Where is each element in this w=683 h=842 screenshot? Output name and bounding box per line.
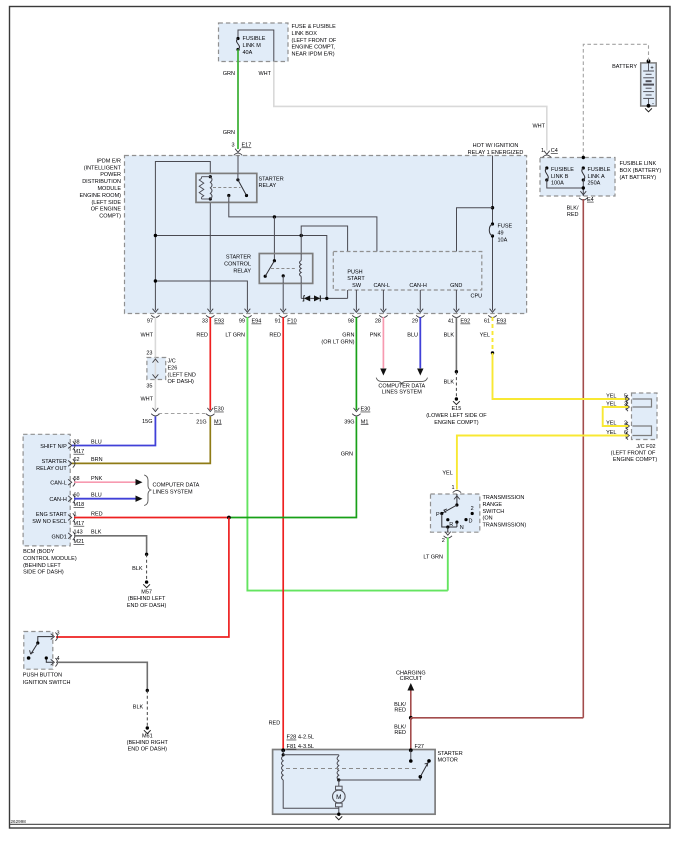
svg-text:STARTER: STARTER: [226, 255, 251, 261]
wire GRN connector 39G to junction with BCM eng start sw: [229, 417, 357, 518]
wire fuse branch to CPU: [457, 208, 493, 252]
wire CPU CAN-H to pin 29: [419, 290, 421, 311]
wire joining fusible links A and B: [547, 180, 584, 188]
svg-text:CPU: CPU: [471, 293, 483, 299]
svg-text:ENGINE COMPT): ENGINE COMPT): [613, 457, 657, 463]
wire starter control relay coil bottom to diodes: [300, 283, 302, 298]
svg-text:C4: C4: [551, 148, 558, 154]
wire BLK/RED junction to battery feed: [411, 717, 584, 719]
svg-text:OF DASH): OF DASH): [168, 379, 194, 385]
svg-text:(LEFT END: (LEFT END: [168, 372, 196, 378]
svg-text:E94: E94: [252, 319, 262, 325]
svg-text:33: 33: [202, 319, 208, 325]
node bus to pin 99: [154, 279, 157, 282]
wire CPU CAN-L to pin 28: [382, 290, 384, 311]
svg-text:GND1: GND1: [52, 534, 67, 540]
wire GRN pin 98 to connector 39G: [355, 317, 357, 410]
node bus coil tap: [300, 234, 303, 237]
pin 38 M17: [68, 443, 72, 449]
svg-text:RELAY OUT: RELAY OUT: [36, 466, 67, 472]
pin 1 M17: [68, 515, 72, 521]
svg-text:SW NO ESCL: SW NO ESCL: [32, 519, 67, 525]
svg-text:21G: 21G: [196, 419, 206, 425]
svg-text:YEL: YEL: [480, 333, 490, 339]
computer data lines brace: [376, 378, 427, 385]
junction connector J/C E26: [147, 358, 166, 380]
starter control relay coil: [300, 261, 302, 277]
svg-text:BLK: BLK: [91, 530, 102, 536]
svg-text:HOT W/ IGNITION: HOT W/ IGNITION: [473, 143, 519, 149]
node fuse branch: [491, 206, 494, 209]
svg-text:LINK B: LINK B: [551, 174, 569, 180]
svg-text:TRANSMISSION: TRANSMISSION: [483, 495, 525, 501]
svg-text:1: 1: [74, 511, 77, 517]
svg-text:40A: 40A: [243, 50, 253, 56]
svg-text:COMPUTER DATA: COMPUTER DATA: [378, 383, 425, 389]
motor M1: [338, 780, 340, 786]
svg-text:M17: M17: [74, 449, 85, 455]
svg-text:E93: E93: [214, 319, 224, 325]
wire BLK/RED junction to starter motor F27: [410, 718, 412, 750]
svg-text:RELAY: RELAY: [259, 183, 277, 189]
svg-text:BLU: BLU: [91, 439, 102, 445]
ground starter motor: [337, 813, 340, 816]
svg-text:BLK: BLK: [444, 333, 455, 339]
wire BLU pin 29 to computer data lines: [419, 317, 421, 368]
svg-text:61: 61: [484, 319, 490, 325]
svg-text:LINK M: LINK M: [243, 43, 262, 49]
wire YEL to J/C F02 pin 5: [493, 353, 629, 399]
IPDM E/R module box: [125, 156, 527, 314]
svg-text:250A: 250A: [588, 181, 601, 187]
pin 1: [453, 490, 461, 492]
svg-text:COMPUTER DATA: COMPUTER DATA: [153, 483, 200, 489]
svg-text:R: R: [449, 522, 453, 528]
svg-text:E93: E93: [497, 319, 507, 325]
transmission range switch internals: [456, 494, 458, 505]
svg-text:(ON: (ON: [483, 516, 493, 522]
svg-text:BLU: BLU: [407, 333, 418, 339]
svg-text:39G: 39G: [344, 419, 354, 425]
svg-text:10A: 10A: [498, 237, 508, 243]
svg-text:STARTER: STARTER: [259, 176, 284, 182]
svg-text:RED: RED: [269, 721, 281, 727]
pin 91 F10: [280, 309, 286, 313]
wire battery positive to fusible link box (dashed): [583, 44, 648, 157]
svg-text:START: START: [347, 276, 365, 282]
wire bus to pin 99: [155, 281, 247, 311]
pin 33 E93: [207, 309, 213, 313]
wire bus to diode branch: [155, 236, 326, 299]
svg-text:BLU: BLU: [91, 493, 102, 499]
pin 5: [626, 396, 630, 402]
charging circuit arrow: [410, 690, 412, 718]
svg-text:M1: M1: [214, 419, 222, 425]
wire F27 terminal to contact: [409, 748, 413, 752]
svg-text:PNK: PNK: [91, 476, 103, 482]
J/C F02 loop pins 2-6: [633, 426, 652, 436]
pin 29: [417, 309, 423, 313]
svg-text:BLK: BLK: [133, 705, 144, 711]
pin 41 E92: [454, 309, 460, 313]
wire YEL pin 3 to pin 2: [603, 407, 629, 426]
pin 4: [51, 659, 55, 665]
svg-text:N: N: [460, 525, 464, 531]
wire starter relay coil to pin 33: [209, 202, 211, 310]
svg-text:RANGE: RANGE: [483, 502, 503, 508]
connector E30/M1 terminal 15G: [153, 408, 159, 412]
svg-text:M18: M18: [74, 502, 85, 508]
svg-text:FUSIBLE: FUSIBLE: [588, 167, 611, 173]
svg-text:STARTER: STARTER: [42, 459, 67, 465]
svg-text:WHT: WHT: [140, 333, 153, 339]
svg-text:PNK: PNK: [370, 333, 382, 339]
svg-text:60: 60: [74, 493, 80, 499]
svg-text:PUSH: PUSH: [347, 269, 362, 275]
wire BLU BCM CAN-H to computer data lines: [74, 498, 136, 500]
svg-text:BATTERY: BATTERY: [612, 64, 637, 70]
svg-text:LT GRN: LT GRN: [423, 554, 443, 560]
wire junction to starter control relay switch: [273, 217, 275, 261]
pin 6: [626, 433, 630, 439]
svg-text:49: 49: [498, 231, 504, 237]
wire PNK BCM CAN-L to computer data lines: [74, 481, 136, 483]
svg-text:FUSIBLE: FUSIBLE: [551, 167, 574, 173]
transmission range switch: [431, 494, 480, 532]
svg-text:J/C F02: J/C F02: [636, 444, 655, 450]
wire RED pin 91 to starter motor: [282, 317, 284, 750]
svg-text:1: 1: [451, 485, 454, 491]
svg-text:LT GRN: LT GRN: [225, 333, 245, 339]
svg-text:(LEFT FRONT OF: (LEFT FRONT OF: [292, 38, 337, 44]
wire starter control relay coil top: [300, 236, 302, 254]
svg-text:RED: RED: [567, 212, 579, 218]
node YEL splice: [491, 351, 494, 354]
svg-text:END OF DASH): END OF DASH): [127, 603, 167, 609]
svg-text:E30: E30: [214, 407, 224, 413]
fusible link M 40A: [236, 37, 239, 40]
svg-text:143: 143: [74, 530, 83, 536]
svg-text:GND: GND: [450, 283, 462, 289]
connector E30/M1 terminal 21G: [207, 408, 213, 412]
svg-text:CONTROL MODULE): CONTROL MODULE): [23, 556, 77, 562]
starter relay U1: [196, 173, 257, 202]
svg-text:RED: RED: [196, 333, 208, 339]
svg-text:COMPT): COMPT): [99, 214, 121, 220]
svg-text:IGNITION SWITCH: IGNITION SWITCH: [23, 680, 71, 686]
svg-text:3: 3: [57, 630, 60, 636]
svg-text:CIRCUIT: CIRCUIT: [400, 676, 423, 682]
svg-text:NEAR IPDM E/R): NEAR IPDM E/R): [292, 52, 335, 58]
svg-text:MODULE: MODULE: [97, 186, 121, 192]
svg-text:D: D: [469, 518, 473, 524]
svg-text:RELAY: RELAY: [233, 268, 251, 274]
wire CPU SW to pin 98: [355, 290, 357, 311]
starter motor solenoid windings: [281, 748, 285, 752]
svg-text:TRANSMISSION): TRANSMISSION): [483, 523, 527, 529]
fusible link box battery: [540, 158, 615, 197]
svg-text:POWER: POWER: [100, 172, 121, 178]
svg-text:F28 4-2.5L: F28 4-2.5L: [287, 735, 315, 741]
pin 60 M18: [68, 496, 72, 502]
svg-text:(LOWER LEFT SIDE OF: (LOWER LEFT SIDE OF: [426, 413, 487, 419]
svg-text:M17: M17: [74, 521, 85, 527]
wire BLK push button to ground M61: [56, 662, 147, 690]
connector E30/M1 dashed link: [159, 413, 207, 415]
wire WHT J/C E26 to connector 15G: [154, 380, 156, 411]
svg-text:100A: 100A: [551, 181, 564, 187]
solenoid contact switch: [419, 775, 423, 779]
svg-text:M1: M1: [361, 419, 369, 425]
wire starter relay coil feed to pin 97: [155, 162, 210, 311]
svg-text:F81 4-3.5L: F81 4-3.5L: [287, 744, 315, 750]
wire RED BCM eng start sw to junction: [74, 517, 229, 519]
svg-text:29: 29: [412, 319, 418, 325]
pin 58: [68, 479, 72, 485]
starter control relay U2: [259, 254, 312, 284]
svg-text:YEL: YEL: [606, 393, 616, 399]
svg-text:98: 98: [348, 319, 354, 325]
svg-text:WHT: WHT: [258, 71, 271, 77]
fuse 49 10A: [492, 156, 494, 225]
pin 97: [153, 309, 159, 313]
ground M57: [145, 580, 148, 583]
wire BLK/RED from E4 down right side: [582, 199, 584, 718]
svg-text:WHT: WHT: [140, 397, 153, 403]
wire pull-in winding to motor low side: [283, 780, 339, 808]
svg-text:J/C: J/C: [168, 359, 176, 365]
svg-text:CAN-H: CAN-H: [49, 497, 66, 503]
svg-text:58: 58: [74, 476, 80, 482]
svg-text:E15: E15: [452, 406, 462, 412]
svg-text:38: 38: [74, 439, 80, 445]
svg-text:CAN-H: CAN-H: [409, 283, 426, 289]
push button ignition switch: [24, 632, 53, 670]
svg-text:SHIFT N/P: SHIFT N/P: [40, 444, 67, 450]
svg-text:ENG START: ENG START: [36, 512, 68, 518]
pin 62: [68, 461, 72, 467]
CPU box: [333, 252, 482, 291]
pin 61 E93: [490, 309, 496, 313]
pin 2: [447, 527, 449, 532]
wire winding junction to solenoid switch: [339, 777, 421, 780]
wire RED junction to push button ignition switch: [56, 518, 229, 638]
BCM body control module box: [23, 434, 70, 546]
svg-text:(BEHIND LEFT: (BEHIND LEFT: [128, 596, 166, 602]
svg-text:(INTELLIGENT: (INTELLIGENT: [84, 165, 122, 171]
svg-text:M61: M61: [142, 734, 153, 740]
connector E30/M1 terminal 39G: [354, 408, 360, 412]
svg-text:LINK A: LINK A: [588, 174, 605, 180]
svg-text:23: 23: [146, 351, 152, 357]
svg-text:CONTROL: CONTROL: [224, 261, 251, 267]
svg-text:41: 41: [448, 319, 454, 325]
svg-text:RELAY 1 ENERGIZED: RELAY 1 ENERGIZED: [468, 150, 524, 156]
svg-text:E30: E30: [361, 407, 371, 413]
svg-text:LINES SYSTEM: LINES SYSTEM: [153, 489, 193, 495]
svg-text:M57: M57: [141, 589, 152, 595]
svg-text:RED: RED: [394, 730, 406, 736]
svg-text:GRN: GRN: [342, 333, 354, 339]
starter control relay switch contacts: [273, 259, 276, 262]
svg-text:RED: RED: [269, 333, 281, 339]
svg-text:OF ENGINE: OF ENGINE: [91, 207, 122, 213]
svg-text:62: 62: [74, 457, 80, 463]
svg-text:(LEFT FRONT OF: (LEFT FRONT OF: [611, 450, 656, 456]
svg-text:1: 1: [541, 148, 544, 154]
pin 1 C4: [544, 151, 550, 155]
svg-text:RED: RED: [91, 511, 103, 517]
svg-text:(BEHIND LEFT: (BEHIND LEFT: [23, 563, 61, 569]
svg-text:(OR LT GRN): (OR LT GRN): [321, 340, 354, 346]
svg-text:BOX (BATTERY): BOX (BATTERY): [620, 168, 662, 174]
pin 99 E94: [245, 309, 251, 313]
svg-text:RED: RED: [394, 707, 406, 713]
svg-text:BLK/: BLK/: [567, 206, 579, 212]
wire pin 3 to starter relay switch: [237, 156, 239, 174]
wire CPU GND to pin 41: [455, 290, 457, 311]
svg-text:E26: E26: [168, 365, 178, 371]
svg-text:YEL: YEL: [442, 470, 452, 476]
svg-text:SW: SW: [352, 283, 362, 289]
svg-text:91: 91: [275, 319, 281, 325]
svg-text:MOTOR: MOTOR: [438, 758, 458, 764]
svg-text:CAN-L: CAN-L: [373, 283, 390, 289]
svg-text:LINES SYSTEM: LINES SYSTEM: [382, 390, 422, 396]
svg-text:M: M: [336, 794, 341, 801]
position contacts R N D 2: [446, 518, 449, 521]
pin 2: [626, 423, 630, 429]
solenoid plunger dashed link: [286, 768, 418, 770]
svg-text:PUSH BUTTON: PUSH BUTTON: [23, 673, 62, 679]
svg-text:BRN: BRN: [91, 457, 103, 463]
computer data lines brace left: [144, 475, 151, 506]
wire YEL pin 61 dashed segment: [492, 317, 494, 353]
svg-text:P: P: [436, 512, 440, 518]
svg-text:FUSIBLE LINK: FUSIBLE LINK: [620, 161, 657, 167]
svg-text:BCM (BODY: BCM (BODY: [23, 549, 54, 555]
pin 98: [354, 309, 360, 313]
svg-text:(LEFT SIDE: (LEFT SIDE: [91, 200, 121, 206]
svg-text:E92: E92: [460, 319, 470, 325]
battery: [641, 63, 657, 106]
svg-text:-: -: [652, 102, 654, 108]
wire RED pin 33 to connector 21G: [209, 317, 211, 410]
pin 3: [626, 404, 630, 410]
svg-text:WHT: WHT: [532, 124, 545, 130]
svg-text:F10: F10: [287, 319, 296, 325]
svg-text:2: 2: [471, 506, 474, 512]
svg-text:4: 4: [57, 656, 60, 662]
svg-text:M21: M21: [74, 539, 85, 545]
node junction to starter control relay: [273, 215, 276, 218]
wire LT GRN transmission range switch pin 2: [447, 538, 449, 591]
wire PNK pin 28 to computer data lines: [382, 317, 384, 368]
wire diode junction to CPU bottom: [347, 290, 349, 298]
diode D1 zener: [301, 297, 304, 299]
junction connector J/C F02: [632, 393, 658, 440]
svg-text:LINK BOX: LINK BOX: [292, 31, 318, 37]
node eng start junction: [227, 516, 231, 520]
node bus left: [154, 234, 157, 237]
wire BLK pin 41 to ground E15: [455, 317, 457, 372]
wire starter control relay common to pin 91: [282, 283, 284, 310]
wire BLU connector 15G to BCM shift N/P: [72, 417, 156, 446]
svg-text:GRN: GRN: [223, 130, 235, 136]
svg-text:99: 99: [239, 319, 245, 325]
pin 3: [51, 634, 55, 640]
node battery feed: [582, 156, 585, 159]
svg-text:FUSIBLE: FUSIBLE: [243, 36, 266, 42]
svg-text:E17: E17: [242, 143, 252, 149]
svg-text:97: 97: [147, 319, 153, 325]
wire WHT from fusible link box to battery fusible link box: [274, 62, 547, 151]
svg-text:5: 5: [624, 393, 627, 399]
svg-text:STARTER: STARTER: [438, 751, 463, 757]
svg-text:28: 28: [375, 319, 381, 325]
wire BRN connector 21G to BCM starter relay out: [72, 417, 211, 464]
starter relay switch contacts: [236, 178, 239, 181]
ground E15: [455, 397, 458, 400]
node charging junction: [409, 716, 413, 720]
node diode junction: [325, 297, 328, 300]
svg-text:35: 35: [146, 383, 152, 389]
svg-text:E4: E4: [587, 197, 594, 203]
svg-text:ENGINE ROOM): ENGINE ROOM): [79, 193, 121, 199]
svg-text:GRN: GRN: [341, 452, 353, 458]
wire BLK BCM GND1 to ground M57: [74, 536, 147, 555]
J/C F02 loop pins 5-3: [633, 399, 652, 407]
fusible link B 100A: [545, 166, 548, 169]
svg-text:DISTRIBUTION: DISTRIBUTION: [82, 179, 121, 185]
svg-text:3: 3: [231, 143, 234, 149]
svg-text:SWITCH: SWITCH: [483, 509, 505, 515]
ground M61: [146, 726, 149, 729]
wire coil tap to CPU top: [301, 226, 347, 252]
wire starter relay switch to CPU: [229, 202, 377, 251]
svg-text:GRN: GRN: [223, 71, 235, 77]
svg-text:(BEHIND RIGHT: (BEHIND RIGHT: [127, 740, 169, 746]
push button switch internals: [38, 637, 53, 643]
svg-text:SIDE OF DASH): SIDE OF DASH): [23, 570, 64, 576]
wire from fusible link M to WHT output: [238, 30, 274, 62]
pin E4: [580, 191, 586, 195]
svg-text:BLK: BLK: [132, 566, 143, 572]
diode D2: [310, 297, 314, 299]
svg-text:END OF DASH): END OF DASH): [128, 747, 168, 753]
svg-text:ENGINE COMPT,: ENGINE COMPT,: [292, 45, 336, 51]
svg-text:IPDM E/R: IPDM E/R: [97, 158, 121, 164]
svg-text:15G: 15G: [142, 419, 152, 425]
fusible link A 250A: [582, 166, 585, 169]
svg-text:CAN-L: CAN-L: [50, 481, 67, 487]
svg-text:BLK: BLK: [444, 380, 455, 386]
svg-text:262998: 262998: [11, 819, 27, 824]
node hold-in winding to motor: [337, 778, 340, 781]
pin 3 E17 at IPDM top: [235, 149, 241, 153]
fuse & fusible link box (left front of engine compt): [219, 23, 289, 62]
wire GRN from fusible link M to IPDM pin 3: [237, 50, 239, 150]
pin 143 M21: [68, 533, 72, 539]
wire WHT pin 97 to J/C E26: [154, 317, 156, 358]
svg-text:2: 2: [442, 538, 445, 544]
starter motor: [273, 750, 436, 815]
svg-text:FUSE: FUSE: [498, 224, 513, 230]
svg-text:ENGINE COMPT): ENGINE COMPT): [434, 420, 478, 426]
svg-text:FUSE & FUSIBLE: FUSE & FUSIBLE: [292, 24, 337, 30]
svg-text:(AT BATTERY): (AT BATTERY): [620, 175, 657, 181]
pin 28: [381, 309, 387, 313]
